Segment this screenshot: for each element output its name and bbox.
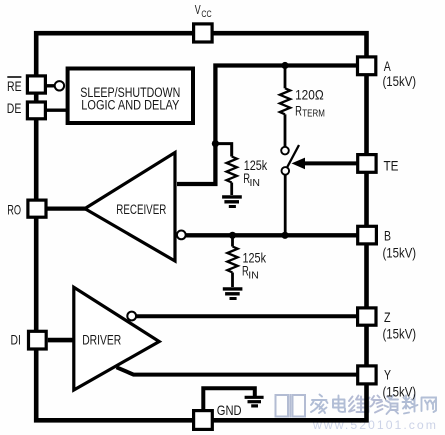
watermark book icon <box>276 394 306 418</box>
IC boundary box <box>36 33 366 420</box>
wire: stub junction A to RIN1 <box>215 144 231 157</box>
label RE (with overline) <box>7 76 21 78</box>
svg-text:Y: Y <box>384 367 391 383</box>
wire: RE pad to inverter bubble <box>47 84 54 87</box>
receiver U2 (triangle pointing left) <box>85 153 175 262</box>
pad GND <box>194 411 213 430</box>
svg-text:DRIVER: DRIVER <box>82 333 121 348</box>
svg-text:120Ω: 120Ω <box>295 86 324 102</box>
svg-text:(15kV): (15kV) <box>383 384 417 400</box>
resistor RTERM 120 ohm <box>280 66 290 147</box>
pad TE <box>358 155 376 173</box>
resistor RIN2 125k <box>227 235 237 287</box>
svg-text:A: A <box>384 58 391 74</box>
wire: driver inverted output to Z <box>136 314 357 318</box>
node: junction A/RIN1 <box>212 140 219 147</box>
svg-text:CC: CC <box>201 9 211 20</box>
wire: GND pad riser to ground symbol <box>203 388 255 411</box>
wire: DE pad to block <box>47 108 67 111</box>
wire: RO to receiver output <box>47 206 86 210</box>
svg-text:TERM: TERM <box>302 109 325 120</box>
wire: TE to switch (with arrowhead) <box>304 161 357 165</box>
pad Y <box>358 366 376 384</box>
svg-text:R: R <box>295 103 302 119</box>
svg-text:B: B <box>384 227 391 243</box>
node: junction B/RIN2 <box>229 232 236 239</box>
svg-text:IN: IN <box>248 270 258 281</box>
svg-text:LOGIC AND DELAY: LOGIC AND DELAY <box>81 98 179 113</box>
watermark text 家电维修资料网 (stylized) <box>311 395 436 415</box>
bubble: driver inverting output <box>127 312 136 321</box>
wire: DI to driver input <box>48 338 74 343</box>
ground symbol (RIN1) <box>222 197 242 207</box>
inverter bubble (RE input) <box>55 81 64 90</box>
svg-text:(15kV): (15kV) <box>383 325 417 341</box>
driver U3 (triangle pointing right) <box>74 287 159 390</box>
svg-text:(15kV): (15kV) <box>383 244 417 260</box>
svg-text:TE: TE <box>384 157 399 173</box>
svg-text:V: V <box>195 2 201 17</box>
svg-text:DI: DI <box>11 331 21 347</box>
wire: driver output to Y <box>117 367 359 374</box>
pad VCC <box>194 24 213 42</box>
pad A <box>358 57 376 75</box>
wire: A net horizontal + vertical to receiver input <box>177 66 357 185</box>
svg-text:Z: Z <box>384 309 391 325</box>
svg-text:RO: RO <box>7 201 21 217</box>
svg-text:DE: DE <box>7 100 22 116</box>
svg-text:IN: IN <box>250 178 261 189</box>
block U1: SLEEP/SHUTDOWN LOGIC AND DELAY <box>68 69 193 124</box>
pad RE <box>27 76 45 93</box>
resistor RIN1 125k <box>227 157 237 196</box>
ground symbol (GND) <box>245 397 264 406</box>
bubble: receiver inverting input <box>177 231 186 240</box>
switch S1 <box>281 145 299 235</box>
svg-text:RECEIVER: RECEIVER <box>116 202 166 217</box>
svg-text:GND: GND <box>217 402 242 418</box>
pad Z <box>358 308 376 325</box>
svg-text:RE: RE <box>7 78 22 94</box>
svg-text:(15kV): (15kV) <box>383 73 417 89</box>
ground symbol (RIN2) <box>223 289 243 299</box>
pad B <box>358 226 377 244</box>
node: junction A/RTERM <box>281 62 288 69</box>
pad DI <box>29 331 47 349</box>
pad DE <box>27 102 45 119</box>
node: junction B/switch <box>281 232 288 239</box>
pad RO <box>28 200 46 217</box>
wire: B net (receiver inverting input to pad B) <box>186 233 358 237</box>
